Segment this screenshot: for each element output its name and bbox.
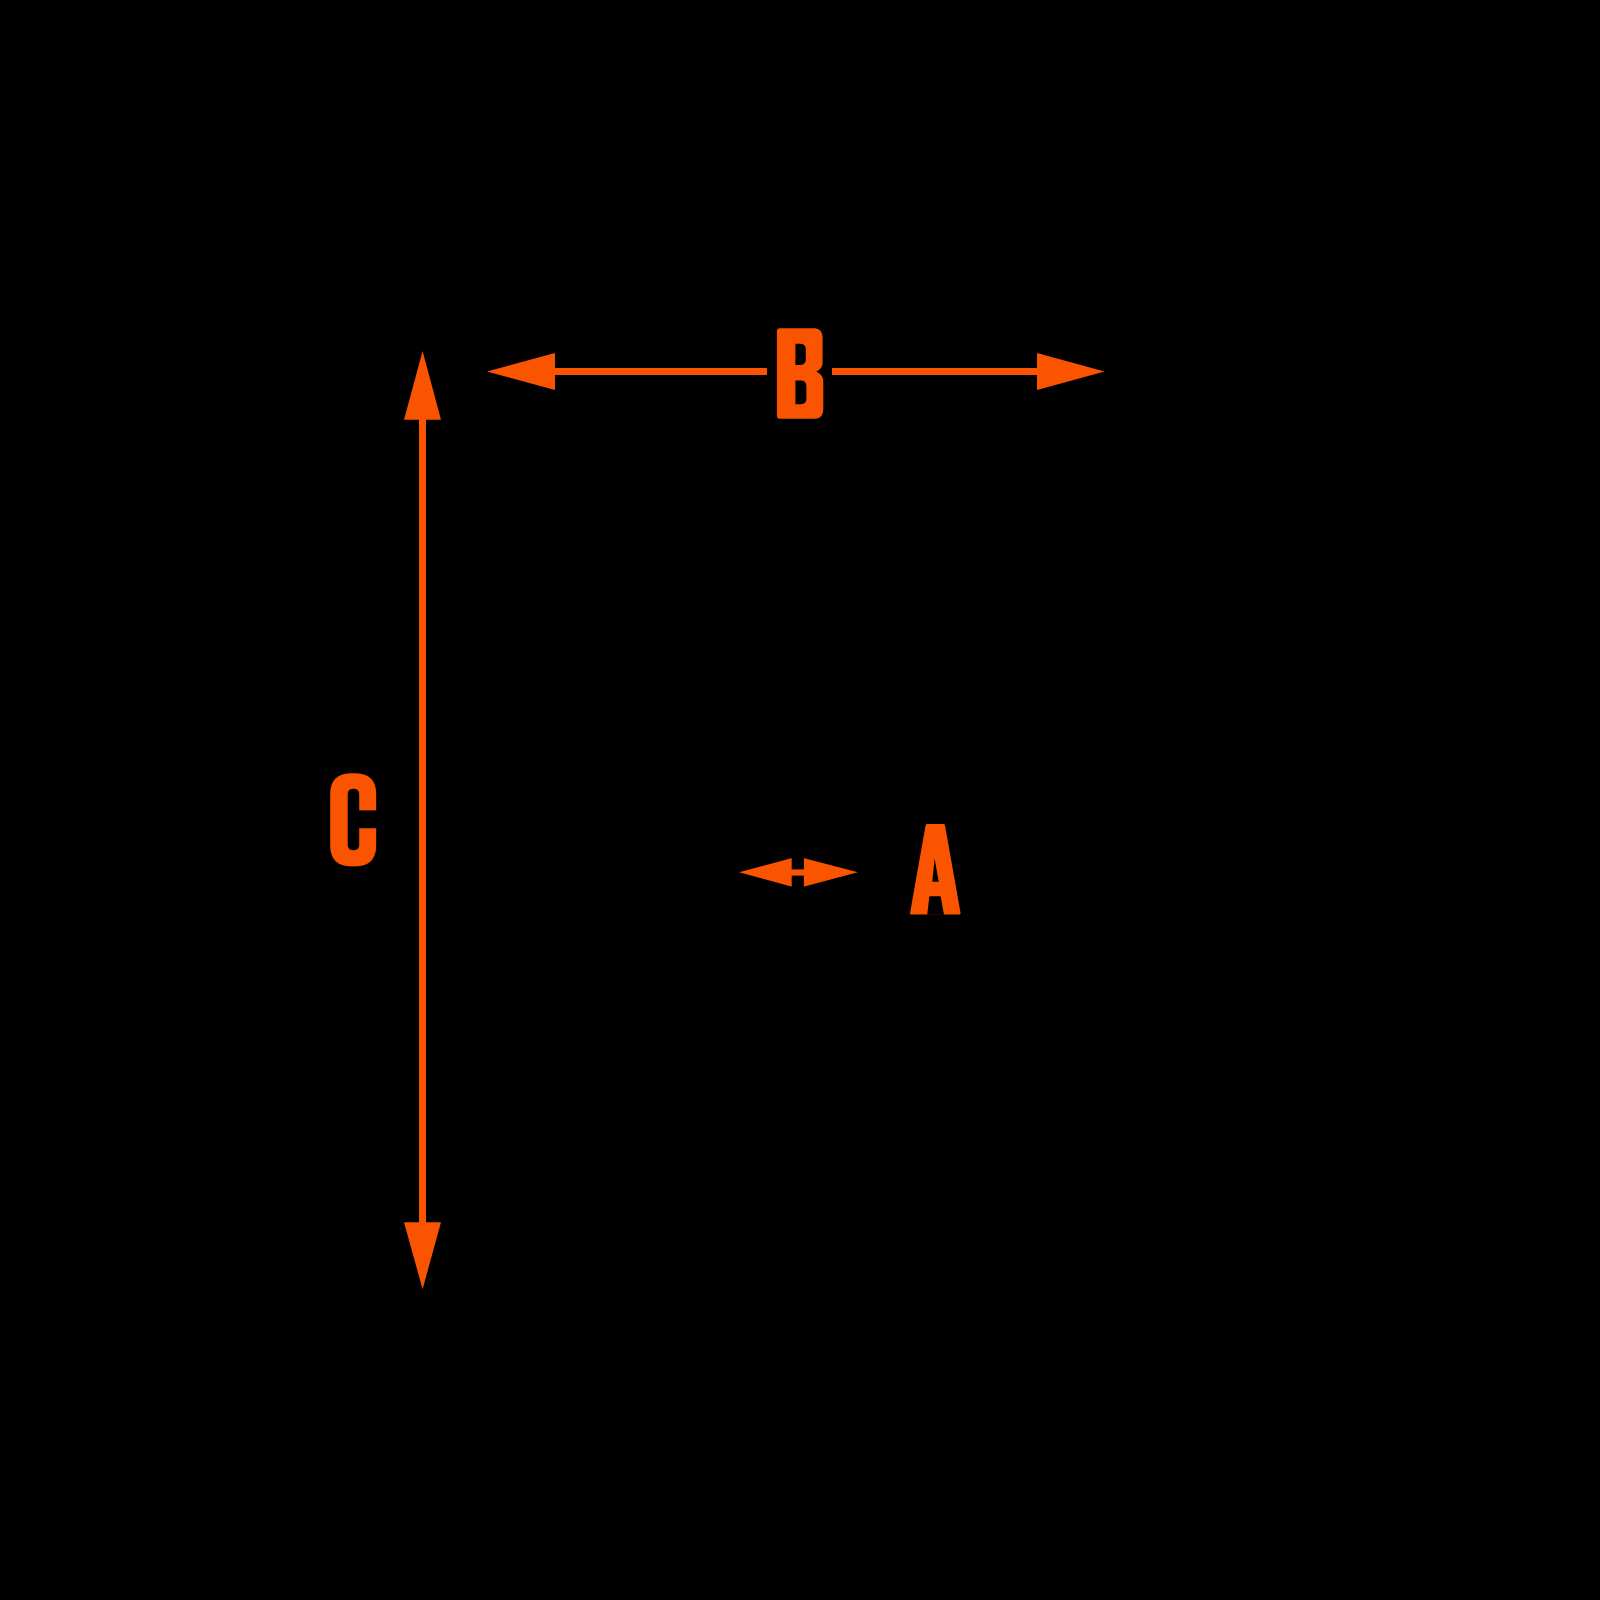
dimension arrow B: right arrowhead [1037, 353, 1105, 390]
label B [777, 328, 823, 418]
dimension arrow A: shaft [782, 869, 814, 875]
dimension arrow A: right arrowhead [804, 858, 858, 887]
dimension arrow C: top arrowhead [404, 351, 441, 420]
dimension arrow B: right shaft segment [832, 368, 1040, 375]
dimension arrow B: left arrowhead [487, 353, 555, 390]
label C [330, 773, 376, 866]
dimension arrow C: bottom arrowhead [404, 1222, 441, 1289]
dimension arrow A: left arrowhead [739, 858, 792, 887]
dimension arrow C: shaft [419, 415, 426, 1227]
label A [910, 824, 961, 915]
dimension arrow B: left shaft segment [551, 368, 767, 375]
